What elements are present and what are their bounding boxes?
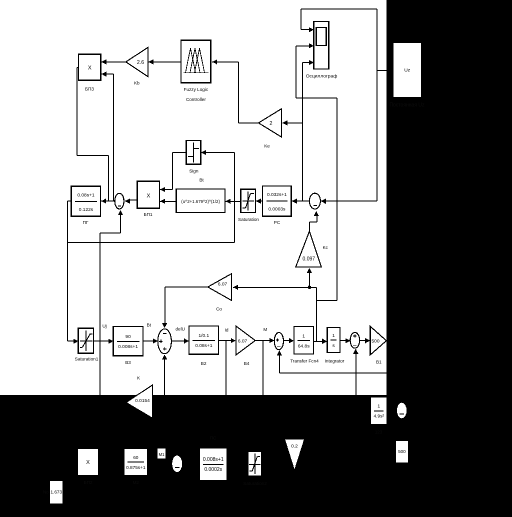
- svg-text:2.6: 2.6: [137, 60, 144, 66]
- svg-text:X: X: [147, 194, 151, 200]
- svg-text:6.07: 6.07: [238, 338, 248, 344]
- svg-text:B1: B1: [376, 360, 382, 365]
- svg-text:Осциллограф: Осциллограф: [306, 74, 338, 80]
- svg-text:БПЗ: БПЗ: [85, 87, 94, 92]
- svg-text:Bt: Bt: [147, 323, 152, 328]
- svg-text:Kb: Kb: [134, 81, 140, 86]
- svg-text:Co: Co: [216, 307, 222, 312]
- svg-text:1: 1: [302, 333, 305, 339]
- svg-text:4.9s²: 4.9s²: [374, 414, 385, 419]
- svg-text:Uj: Uj: [102, 324, 106, 329]
- svg-text:0.122s: 0.122s: [79, 207, 94, 213]
- svg-text:Ke: Ke: [264, 144, 270, 149]
- svg-text:delU: delU: [176, 327, 185, 332]
- svg-text:64.8s: 64.8s: [298, 343, 310, 349]
- svg-text:Kc: Kc: [323, 245, 329, 250]
- svg-text:Bt: Bt: [199, 178, 204, 183]
- svg-text:B3: B3: [125, 360, 131, 365]
- svg-text:B4: B4: [244, 361, 250, 366]
- svg-text:M: M: [263, 327, 267, 332]
- svg-text:2: 2: [270, 121, 273, 127]
- svg-text:500: 500: [398, 449, 406, 454]
- svg-text:0.0002s: 0.0002s: [204, 467, 222, 473]
- svg-text:123: 123: [375, 430, 383, 435]
- svg-text:Fuzzy Logic: Fuzzy Logic: [184, 87, 209, 92]
- svg-text:500: 500: [371, 338, 379, 344]
- svg-text:1: 1: [332, 333, 335, 339]
- svg-text:Sign: Sign: [189, 168, 199, 173]
- svg-text:6.07: 6.07: [218, 281, 228, 287]
- svg-text:Saturation2: Saturation2: [243, 481, 267, 486]
- svg-text:Transfer Fcn4: Transfer Fcn4: [290, 359, 319, 364]
- svg-text:(u^2+1.679^2)^(1/2): (u^2+1.679^2)^(1/2): [181, 199, 220, 204]
- svg-text:Saturation1: Saturation1: [75, 357, 99, 362]
- svg-text:Integrator: Integrator: [325, 359, 345, 364]
- svg-text:ПГ: ПГ: [83, 220, 89, 225]
- svg-text:1/0.1: 1/0.1: [198, 333, 209, 339]
- svg-text:Saturation: Saturation: [238, 217, 259, 222]
- svg-text:1.673: 1.673: [51, 490, 63, 495]
- svg-text:M2: M2: [133, 480, 140, 485]
- svg-text:Uz: Uz: [404, 68, 410, 74]
- svg-text:0.097: 0.097: [303, 257, 316, 263]
- svg-text:ПС: ПС: [210, 436, 217, 441]
- svg-text:No: No: [43, 490, 49, 495]
- svg-text:0.008s+1: 0.008s+1: [203, 457, 224, 463]
- svg-text:60: 60: [133, 455, 139, 460]
- svg-text:0.2: 0.2: [291, 444, 298, 450]
- svg-text:X: X: [88, 66, 92, 72]
- svg-text:0.0154: 0.0154: [135, 398, 150, 404]
- svg-text:X: X: [86, 460, 90, 466]
- svg-text:БП1: БП1: [144, 212, 153, 217]
- svg-text:0.08s+1: 0.08s+1: [77, 193, 95, 199]
- svg-text:Id: Id: [225, 328, 229, 333]
- svg-text:0.08s+1: 0.08s+1: [195, 343, 213, 349]
- svg-text:0.008s+1: 0.008s+1: [118, 344, 138, 350]
- svg-text:К: К: [137, 376, 140, 381]
- svg-text:M1: M1: [159, 452, 165, 457]
- svg-text:Постоянная Uz: Постоянная Uz: [389, 103, 425, 109]
- svg-text:0.875s+1: 0.875s+1: [126, 465, 146, 470]
- svg-text:0.0003s: 0.0003s: [268, 207, 286, 213]
- svg-text:90: 90: [125, 334, 131, 340]
- svg-text:0.032s+1: 0.032s+1: [267, 192, 287, 198]
- svg-text:PC: PC: [274, 220, 281, 225]
- svg-text:Controller: Controller: [186, 97, 206, 102]
- svg-text:1: 1: [377, 404, 380, 409]
- svg-text:БП2: БП2: [84, 480, 93, 485]
- svg-text:B2: B2: [201, 361, 207, 366]
